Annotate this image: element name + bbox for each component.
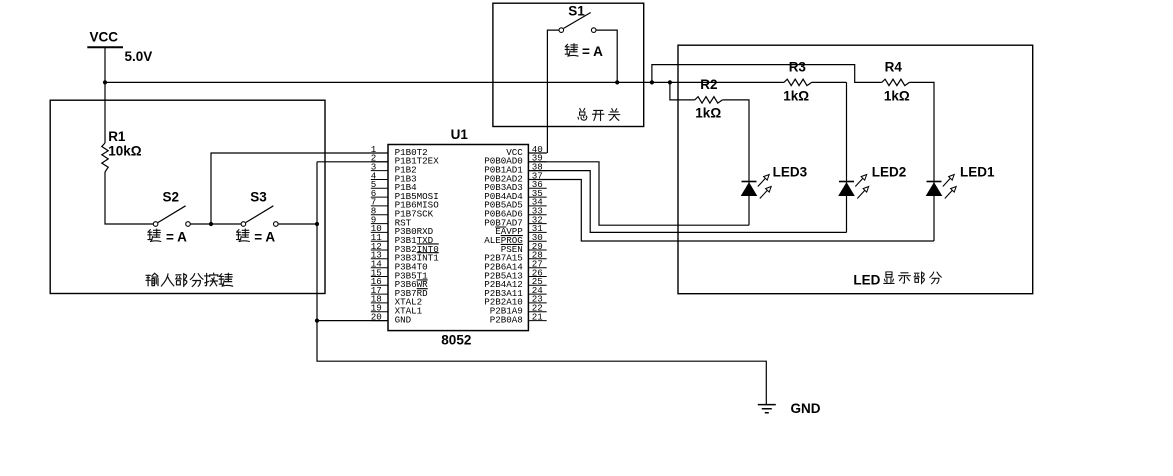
svg-text:R1: R1 [108,129,126,144]
svg-text:R4: R4 [885,59,903,74]
LED LED1 cathode bar [927,181,942,183]
pin-name negation overbars (INT0, INT1, WR, RD, EA, PROG, PSEN) [417,227,523,289]
U1 pin 1 P1B0T2 [371,144,428,158]
U1 pin 18 XTAL2 [371,294,422,308]
node VCC junction dot [103,80,107,84]
wire R2 feed (down) [670,82,695,100]
svg-text:VCC: VCC [90,29,119,44]
U1 pin 31 EAVPP [495,223,546,237]
svg-text:S1: S1 [568,4,585,19]
svg-text:P2B0A8: P2B0A8 [490,314,523,325]
U1 pin 11 P3B1TXD [371,232,434,246]
U1 pin 14 P3B4T0 [371,259,428,273]
wire R3 to LED2 [846,82,848,232]
wire junction up to U1 pin 1 [211,153,388,224]
svg-text:1kΩ: 1kΩ [884,88,910,103]
U1 pin 12 P3B2INT0 [371,241,439,255]
U1 pin 33 P0B6AD6 [484,206,547,220]
label 总开关 (main switch) [578,108,587,120]
LED LED2 triangle (anode) [839,183,854,196]
wire U1 pin 20 to ground net [317,320,388,322]
U1 pin 38 P0B1AD1 [484,161,547,175]
wire ground net: pin2 drop, down and across to GND [317,162,766,405]
U1 pin 16 P3B6WR [371,276,428,290]
svg-text:1kΩ: 1kΩ [783,88,809,103]
U1 pin 29 PSEN [501,241,547,255]
svg-text:GND: GND [395,314,412,325]
U1 pin 3 P1B2 [371,161,417,175]
value S1 key label 键 = A [565,44,578,56]
U1 pin 9 RST [371,214,412,228]
resistor R1 (vertical zigzag) [102,143,108,172]
U1 pin 34 P0B5AD5 [484,197,547,211]
U1 pin 26 P2B5A13 [484,267,547,281]
svg-text:8052: 8052 [441,332,471,347]
U1 pin 39 P0B0AD0 [484,153,547,167]
wire VCC rail to R3 [105,81,847,83]
wire R4 to LED1 [909,82,934,241]
wire U1 pin 39 to LED3 cathode [528,162,749,225]
LED LED2 cathode bar [839,181,854,183]
svg-text:= A: = A [166,229,187,244]
wire S2 to S3 [190,223,241,225]
svg-text:R3: R3 [789,59,807,74]
U1 pin 10 P3B0RXD [371,223,434,237]
resistor R2 [695,97,723,103]
U1 pin 17 P3B7RD [371,285,428,299]
ground symbol [758,405,776,413]
wire U1 pin 2 [317,161,388,163]
op: IC body U1 8052 [388,145,528,331]
switch S1 [564,13,591,29]
LED LED2 emission arrows [855,178,863,186]
svg-text:5.0V: 5.0V [125,49,153,64]
U1 pin 19 XTAL1 [371,303,423,317]
node junction S3/ground net [315,222,319,226]
wire S1 left terminal to U1 pin 40 [528,30,559,153]
LED LED3 emission arrows [758,178,766,186]
svg-text:LED3: LED3 [773,164,808,179]
svg-text:R2: R2 [700,77,717,92]
switch S3 [246,206,274,223]
LED LED1 emission arrows [943,178,951,186]
wire R4 feed (up and over) [652,65,882,83]
wire R1 bottom to S2 [105,172,153,224]
svg-text:LED2: LED2 [872,164,907,179]
wire VCC stem down to R1 [104,47,106,143]
U1 pin 7 P1B6MISO [371,197,439,211]
wire S1 right terminal to VCC rail [596,30,617,82]
U1 pin 32 P0B7AD7 [484,214,547,228]
switch S2 [158,206,186,223]
U1 pin 21 P2B0A8 [490,311,547,325]
U1 pin 20 GND [371,311,412,325]
LED section box LED显示部分 [678,45,1033,294]
U1 pin 4 P1B3 [371,170,417,184]
U1 pin 2 P1B1T2EX [371,153,439,167]
svg-text:21: 21 [532,311,544,322]
resistor R3 [784,79,812,85]
LED LED1 triangle (anode) [926,183,941,196]
node junction S2/S3 to pin1 [209,222,213,226]
node junction VCC rail / R2 feed [668,80,672,84]
svg-text:S2: S2 [163,190,180,205]
U1 pin 36 P0B3AD3 [484,179,547,193]
value S3 key label 键 = A [236,229,249,241]
U1 pin 30 ALEPROG [484,232,547,246]
U1 pin 6 P1B5MOSI [371,188,439,202]
svg-text:= A: = A [254,229,275,244]
U1 pin 40 VCC [506,144,546,158]
U1 pin 27 P2B6A14 [484,259,547,273]
svg-text:S3: S3 [250,190,267,205]
U1 pin 23 P2B2A10 [484,294,547,308]
value S2 key label 键 = A [148,229,161,241]
svg-text:U1: U1 [451,127,469,142]
node junction S1/VCC rail [615,80,619,84]
LED LED3 triangle (anode) [741,183,756,196]
svg-text:LED1: LED1 [960,164,995,179]
U1 pin 35 P0B4AD4 [484,188,547,202]
svg-text:LED: LED [853,272,880,287]
svg-text:10kΩ: 10kΩ [108,143,142,158]
svg-text:= A: = A [582,44,603,59]
U1 pin 5 P1B4 [371,179,417,193]
VCC power symbol [87,46,123,48]
U1 pin 28 P2B7A15 [484,250,547,264]
U1 pin 25 P2B4A12 [484,276,547,290]
wire S3 right to ground net [278,223,317,225]
U1 pin 22 P2B1A9 [490,303,547,317]
LED LED3 cathode bar [742,181,757,183]
svg-text:20: 20 [371,311,382,322]
input section box 输入部分按键 [50,100,325,293]
wire U1 pin 37 to LED1 cathode [528,180,934,242]
resistor R4 [882,79,910,85]
label 输入部分按键 (input keys section) [146,273,158,286]
svg-text:1kΩ: 1kΩ [695,106,721,121]
wire R2 to LED3 [722,100,749,225]
wire U1 pin 38 to LED2 cathode [528,171,846,233]
node junction GND pin 20 [315,319,319,323]
U1 pin 24 P2B3A11 [484,285,547,299]
U1 pin 15 P3B5T1 [371,267,428,281]
svg-text:GND: GND [791,401,821,416]
node junction VCC rail / R4 feed [650,80,654,84]
U1 pin 13 P3B3INT1 [371,250,439,264]
main switch box 总开关 [493,3,644,126]
U1 pin 8 P1B7SCK [371,206,434,220]
U1 pin 37 P0B2AD2 [484,170,547,184]
